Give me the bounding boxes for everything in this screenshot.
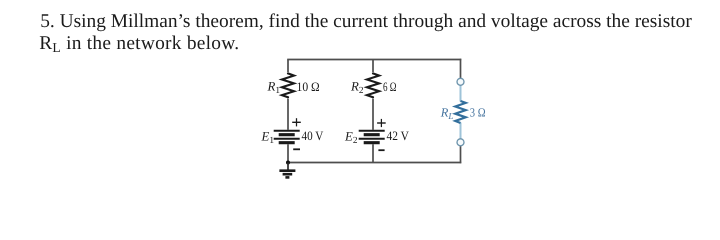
battery E2 xyxy=(344,119,410,150)
wire RL lower (light blue) xyxy=(460,123,462,139)
wire right branch lower segment xyxy=(460,146,462,164)
svg-text:E2: E2 xyxy=(344,129,358,146)
svg-text:E1: E1 xyxy=(261,129,275,146)
terminal node b (bottom circle) xyxy=(457,139,464,146)
svg-text:40 V: 40 V xyxy=(302,129,324,143)
plus sign E1 xyxy=(292,121,301,123)
terminal node a (top circle) xyxy=(457,78,464,85)
ground xyxy=(279,163,295,178)
svg-text:3 Ω: 3 Ω xyxy=(470,106,486,120)
resistor R2 xyxy=(350,72,397,98)
wire bottom bus xyxy=(287,162,461,164)
battery E1 xyxy=(261,118,324,149)
minus sign E2 xyxy=(378,149,384,151)
svg-text:6 Ω: 6 Ω xyxy=(383,80,397,94)
svg-text:5. Using Millman’s theorem, fi: 5. Using Millman’s theorem, find the cur… xyxy=(40,11,692,32)
minus sign E1 xyxy=(293,148,300,150)
resistor RL xyxy=(440,101,486,123)
wire ground stub xyxy=(287,163,289,171)
wire RL upper (light blue) xyxy=(460,85,462,101)
wire top bus xyxy=(287,59,461,61)
resistor R1 xyxy=(267,72,320,98)
wire left branch vertical xyxy=(287,60,289,163)
svg-text:R2: R2 xyxy=(350,79,364,96)
svg-text:RL in the network below.: RL in the network below. xyxy=(39,33,239,55)
svg-text:10 Ω: 10 Ω xyxy=(297,80,320,94)
wire middle branch vertical xyxy=(372,60,374,163)
svg-text:42 V: 42 V xyxy=(387,129,410,143)
svg-text:RL: RL xyxy=(440,105,454,120)
svg-text:R1: R1 xyxy=(267,79,281,96)
wire right branch upper segment xyxy=(460,59,462,79)
node junction dot bottom-left xyxy=(286,161,290,165)
plus sign E2 xyxy=(377,122,386,124)
